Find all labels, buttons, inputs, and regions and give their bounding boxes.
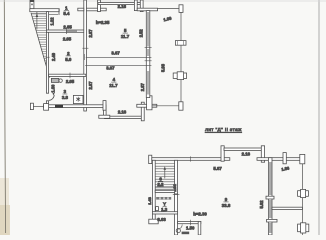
svg-text:2.85: 2.85 (63, 25, 72, 30)
wall stair right (bottom plan) (175, 160, 178, 235)
room label 6 / 2.2 (157, 176, 164, 187)
wall top main right segment (137, 8, 157, 11)
tick on stair right wall y194.6 (173, 194, 180, 196)
svg-text:h=2.30: h=2.30 (193, 211, 207, 216)
vestibule right wall (198, 221, 201, 235)
bay pilaster right top (134, 0, 143, 12)
tick on wall x84 at y48 (82, 47, 88, 49)
svg-text:2.05: 2.05 (63, 36, 72, 41)
door arc room3 (49, 95, 54, 101)
staircase treads (bottom plan) (155, 164, 174, 190)
svg-text:4: 4 (113, 77, 116, 82)
room label 4 / 11.7 (109, 77, 118, 88)
wall room7 top (155, 190, 174, 192)
dim line 3.67 lower (85, 65, 151, 70)
wall cap left end (149, 155, 152, 163)
staircase direction arrow (36, 12, 38, 30)
svg-text:Y: Y (163, 202, 166, 207)
shower band room7 (156, 197, 171, 200)
staircase arrow (bottom plan) (164, 166, 167, 178)
terrace line to right post top (158, 7, 180, 9)
svg-text:9: 9 (225, 197, 228, 202)
svg-text:1.43: 1.43 (147, 196, 152, 205)
wall top main left segment (bottom plan) (152, 158, 230, 161)
room label 1 / 5.4 (63, 5, 70, 16)
partition wall right (bottom plan) (272, 207, 302, 209)
svg-text:5: 5 (124, 28, 127, 33)
svg-text:5.02: 5.02 (259, 200, 264, 209)
staircase (top plan) treads (32, 16, 48, 72)
wall right of rooms 5/4 (hatched) (145, 11, 152, 98)
svg-text:лит "Д" II этаж: лит "Д" II этаж (205, 127, 242, 133)
svg-text:6: 6 (159, 176, 162, 181)
vestibule top wall (178, 220, 201, 225)
terrace post bottom (179, 102, 183, 110)
bay pilaster right (bottom plan) (261, 146, 264, 162)
line corner to bottom post (152, 105, 179, 107)
svg-text:h=2.35: h=2.35 (96, 20, 110, 25)
fixture Y room7 (163, 202, 167, 207)
wall bottom-right corner segment (137, 104, 157, 107)
right boundary line (bottom plan) (301, 164, 303, 235)
svg-text:2.16: 2.16 (242, 152, 251, 157)
svg-text:1.80: 1.80 (51, 84, 56, 93)
svg-text:11.7: 11.7 (121, 34, 130, 39)
bay upper wall (98, 3, 141, 5)
terrace post top (179, 5, 183, 13)
tick on bottom plan main wall (190, 156, 192, 161)
toilet circle (59, 79, 62, 82)
wall block top-left with label (30, 0, 34, 9)
svg-text:1.86: 1.86 (163, 15, 173, 22)
room label 3 / 3.8 (62, 89, 69, 100)
wall step down segment (103, 101, 106, 118)
wall top main left segment (86, 8, 106, 11)
svg-text:2: 2 (67, 51, 70, 56)
dim 1.80 room3 (51, 84, 56, 96)
svg-text:5.0: 5.0 (65, 57, 72, 62)
svg-text:2.52: 2.52 (139, 29, 144, 38)
terrace boundary vertical line (180, 12, 182, 101)
room label 2 / 5.0 (65, 51, 72, 62)
threshold black vestibule (182, 232, 190, 235)
small fixture left room7 (156, 207, 159, 211)
scan border top (0, 0, 326, 2)
svg-text:5.4: 5.4 (63, 11, 70, 16)
pilaster stair left bottom (149, 219, 158, 224)
svg-text:2.16: 2.16 (118, 109, 127, 114)
dim line 3.67 upper (85, 51, 152, 60)
toilet circle below (176, 229, 180, 233)
window symbol right 2 (bottom plan) (298, 223, 309, 233)
tick on room9 wall lower (267, 219, 277, 222)
wall stair left (bottom plan) (152, 160, 155, 222)
wall bottom lower (bay down) (105, 116, 142, 118)
svg-text:1: 1 (65, 5, 68, 10)
wall room1 top (30, 9, 59, 15)
svg-text:2.05: 2.05 (66, 79, 75, 84)
svg-text:3.67: 3.67 (111, 51, 120, 56)
scan border left tint (0, 0, 10, 235)
svg-text:2.87: 2.87 (88, 81, 93, 90)
wall rooms 2/3 divider (49, 73, 86, 79)
scan border right (318, 0, 320, 235)
pilaster x284 (bottom plan) (283, 153, 286, 164)
room label 9 / 33.8 (222, 197, 231, 208)
terrace window symbol 2 (173, 72, 186, 80)
svg-text:33.8: 33.8 (222, 203, 231, 208)
svg-text:3.8: 3.8 (62, 95, 69, 100)
wall end post right (bottom plan) (300, 154, 305, 163)
svg-text:8.03: 8.03 (157, 217, 166, 222)
staircase diagonal stringer (31, 13, 50, 78)
sink fixture room3 (51, 78, 58, 82)
svg-text:2.87: 2.87 (140, 82, 145, 91)
stair top landing line (49, 13, 58, 15)
svg-text:5.87: 5.87 (213, 166, 222, 171)
svg-text:3: 3 (64, 89, 67, 94)
wall between rooms 1 and 2 (46, 29, 85, 34)
svg-text:2.2: 2.2 (157, 182, 164, 187)
bay upper wall (bottom plan) (224, 148, 262, 151)
wall bottom-left stub (30, 103, 43, 109)
tick on room9 wall upper (266, 196, 274, 199)
wall right end pilaster (147, 96, 152, 110)
svg-text:2.40: 2.40 (51, 52, 56, 61)
vent shaft box with asterisk (73, 95, 83, 103)
wall bottom room3 (44, 104, 104, 111)
svg-text:1.86: 1.86 (281, 165, 291, 172)
pilaster bottom right vertical (141, 102, 144, 121)
dim tick on stair wall y57 (46, 56, 50, 58)
svg-text:2.16: 2.16 (118, 4, 127, 9)
svg-text:2.87: 2.87 (88, 29, 93, 38)
svg-text:1.22: 1.22 (50, 17, 55, 26)
svg-text:11.7: 11.7 (109, 83, 118, 88)
svg-text:1.50: 1.50 (186, 226, 195, 231)
wall room7 bottom (152, 212, 177, 214)
staircase top edge (31, 13, 46, 15)
terrace window symbol 1 (175, 41, 186, 46)
window symbol right 1 (bottom plan) (298, 189, 309, 197)
wall top main right segment (bottom plan) (257, 158, 300, 161)
pilaster at bottom step (99, 115, 110, 118)
room label 5 / 11.7 (121, 28, 130, 39)
wall rooms left vertical (x84) (84, 0, 87, 111)
svg-text:5.88: 5.88 (160, 63, 165, 72)
svg-text:1.3: 1.3 (161, 207, 168, 212)
wall stair right (top plan) (46, 12, 48, 108)
svg-text:3.67: 3.67 (106, 65, 115, 70)
pilaster at top wall x84 (78, 8, 84, 11)
wall room9 right (hatched) (268, 158, 272, 235)
bay pilaster left top (98, 0, 101, 12)
bay pilaster left (bottom plan) (221, 146, 224, 161)
vestibule door arc (178, 224, 182, 229)
